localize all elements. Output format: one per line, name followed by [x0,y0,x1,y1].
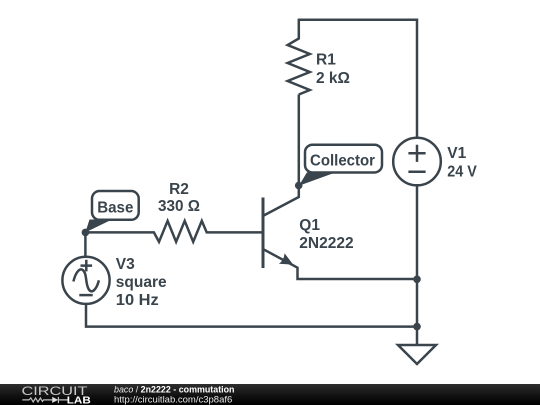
logo schematic squiggle [22,397,68,403]
node Collector junction dot [295,182,303,190]
wire V3 bottom lead and bottom wire [86,304,417,327]
callout Collector box [305,145,382,173]
svg-text:LAB: LAB [67,395,91,405]
svg-text:2N2222: 2N2222 [299,235,353,252]
wire top (R1 top to V1 top) [299,20,417,138]
transistor Q1 base bar [262,198,265,269]
voltage source V1 circle [393,138,441,186]
svg-text:square: square [116,274,167,291]
voltage source V3 circle [62,257,109,304]
transistor Q1 emitter diagonal [264,249,418,279]
callout Collector tail [299,172,336,185]
node Base junction dot [82,229,90,237]
svg-text:Base: Base [97,200,134,217]
wire collector vertical (R1 bottom to Q1 collector) [264,95,299,216]
svg-text:V3: V3 [116,256,135,273]
svg-text:Q1: Q1 [299,217,320,234]
V1 minus sign [408,171,425,174]
svg-text:V1: V1 [447,145,466,162]
svg-text:R1: R1 [316,51,336,68]
callout Base tail [85,220,112,233]
V3 sine wave [73,269,99,291]
ground symbol [398,345,436,364]
node emitter junction dot [413,276,421,284]
V3 plus sign [81,260,93,272]
svg-text:http://circuitlab.com/c3p8af6: http://circuitlab.com/c3p8af6 [114,395,232,405]
svg-text:R2: R2 [169,181,189,198]
V1 plus sign [408,145,425,162]
node ground junction dot [413,323,421,331]
wire V3 top lead [84,232,87,256]
callout Base box [92,191,139,220]
svg-text:Collector: Collector [310,152,375,169]
svg-text:2 kΩ: 2 kΩ [316,70,350,87]
svg-text:330 Ω: 330 Ω [158,198,200,215]
resistor R1 [288,19,310,95]
wire base with resistor R2 [85,221,263,242]
transistor Q1 emitter arrow [279,253,293,264]
logo diode triangle [52,397,58,403]
V3 minus sign [79,294,92,297]
wire V1 bottom lead to ground [416,185,419,345]
svg-text:24 V: 24 V [447,164,477,181]
svg-text:10 Hz: 10 Hz [116,292,159,309]
